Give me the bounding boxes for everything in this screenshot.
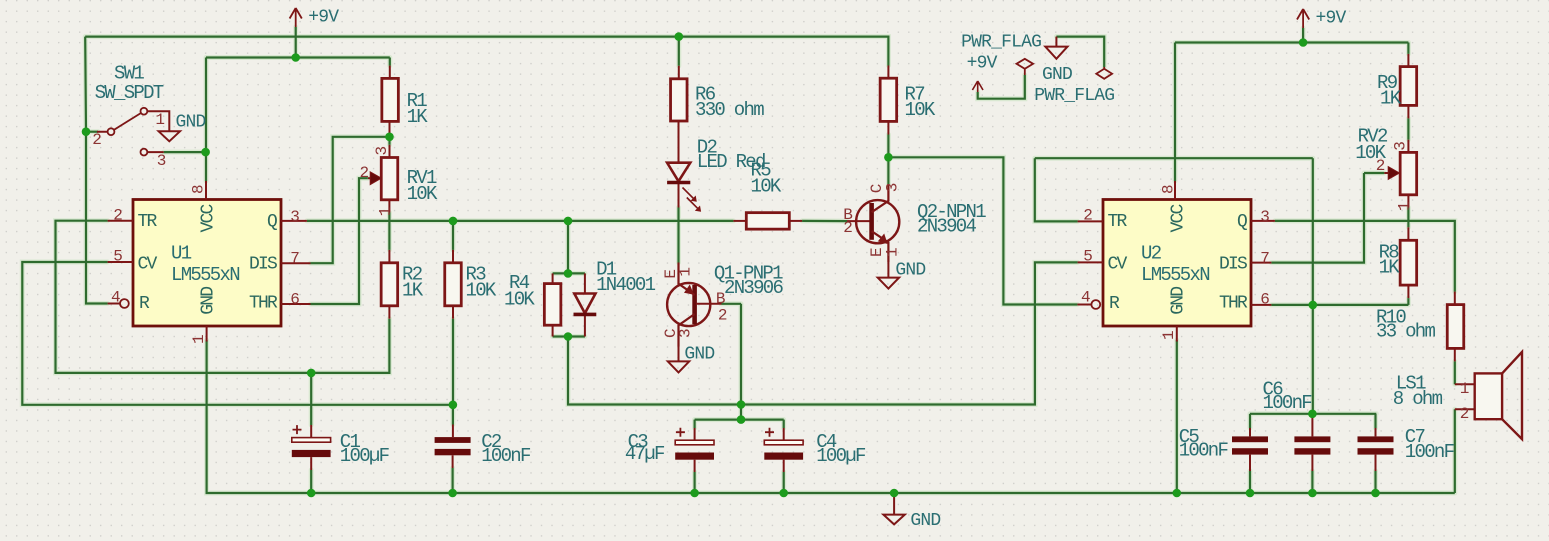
junction bus C5 — [1246, 489, 1255, 498]
power flag PWR_FLAG right (GND) — [1096, 67, 1112, 79]
wire C6 bottom — [1311, 471, 1313, 493]
svg-text:100µF: 100µF — [340, 445, 390, 467]
svg-text:6: 6 — [1260, 291, 1269, 309]
svg-text:Q: Q — [267, 212, 277, 232]
wire PWR_FLAG +9V — [978, 75, 1025, 99]
transistor Q1 PNP 2N3906 — [667, 263, 710, 347]
svg-text:CV: CV — [138, 255, 158, 275]
svg-text:LM555xN: LM555xN — [1141, 264, 1209, 286]
wire C5/C6/C7 top link — [1250, 413, 1376, 415]
svg-text:Q: Q — [1237, 212, 1247, 232]
wire C7 bottom — [1374, 471, 1376, 493]
wire R3 bottom — [452, 319, 454, 405]
svg-text:1K: 1K — [1379, 257, 1401, 279]
resistor R9 — [1400, 67, 1417, 106]
wire C3/C4 node link — [740, 405, 742, 420]
svg-text:GND: GND — [199, 287, 219, 315]
svg-text:3: 3 — [290, 208, 299, 226]
wire C3 top — [693, 420, 695, 428]
svg-text:GND: GND — [1042, 65, 1072, 85]
wire C5 top — [1249, 414, 1251, 428]
capacitor C1 (polarized) — [292, 425, 331, 457]
junction D1/R4 bottom — [564, 332, 573, 341]
wire R9 top — [1407, 43, 1409, 54]
svg-text:100nF: 100nF — [1405, 441, 1455, 463]
wire R1/RV1 node to U1 DIS — [311, 137, 390, 263]
wire RV2 to R8 — [1407, 208, 1409, 228]
wire R9 to RV2 — [1407, 118, 1409, 139]
wire C2 top — [452, 405, 454, 425]
junction +9V right — [1299, 38, 1308, 47]
wire down to U2 TR — [1035, 158, 1078, 221]
svg-text:THR: THR — [249, 293, 278, 313]
junction bus C2 — [448, 489, 457, 498]
junction Q/R3 — [449, 217, 458, 226]
wire RV1 pin1 to R2 — [388, 213, 390, 250]
svg-text:8: 8 — [1160, 185, 1178, 194]
svg-text:6: 6 — [290, 291, 299, 309]
switch SW1 SW_SPDT — [97, 108, 169, 156]
svg-text:2: 2 — [843, 219, 852, 237]
svg-text:1: 1 — [1460, 380, 1469, 398]
svg-text:2: 2 — [113, 206, 122, 224]
svg-text:DIS: DIS — [249, 255, 277, 275]
wire R1 top — [389, 58, 391, 66]
ground at switch pin 1 — [159, 131, 180, 141]
junction THR net — [1309, 301, 1318, 310]
wire U2 GND down — [1176, 340, 1178, 493]
LED D2 — [667, 121, 701, 212]
svg-text:1N4001: 1N4001 — [596, 274, 656, 296]
svg-text:THR: THR — [1219, 293, 1248, 313]
svg-text:CV: CV — [1108, 255, 1128, 275]
svg-text:2N3906: 2N3906 — [724, 277, 784, 299]
junction bus GND — [890, 489, 899, 498]
capacitor C4 (polarized) — [764, 428, 803, 460]
power flag PWR_FLAG left (+9V) — [1017, 59, 1034, 75]
ground at bottom bus — [883, 493, 904, 524]
svg-text:GND: GND — [684, 344, 714, 364]
svg-text:3: 3 — [1391, 142, 1409, 151]
wire +9V drop — [295, 27, 297, 58]
svg-text:GND: GND — [176, 112, 206, 132]
wire R8 bottom — [1407, 298, 1409, 305]
svg-text:3: 3 — [677, 329, 695, 338]
power +9V left — [290, 8, 302, 27]
wire U2 Q to R10 — [1275, 221, 1455, 292]
U2 pins — [1078, 220, 1103, 222]
wire Q2 collector node to U2 pin4 — [888, 157, 1077, 304]
svg-text:1: 1 — [677, 267, 695, 276]
ground at Q2 emitter — [878, 262, 899, 289]
svg-text:GND: GND — [910, 511, 940, 531]
wire PWR_FLAG GND — [1056, 37, 1104, 67]
junction bus U2 GND — [1173, 489, 1182, 498]
svg-text:2: 2 — [360, 164, 369, 182]
svg-text:100nF: 100nF — [481, 445, 531, 467]
junction C3/C4 — [737, 415, 746, 424]
svg-text:3: 3 — [884, 183, 902, 192]
svg-text:1K: 1K — [402, 280, 424, 302]
svg-text:2: 2 — [1460, 405, 1469, 423]
wire +9V drop right — [1302, 28, 1304, 43]
capacitor C2 — [435, 437, 471, 455]
junction bus C1 — [307, 489, 316, 498]
svg-text:33 ohm: 33 ohm — [1376, 321, 1436, 343]
resistor R10 — [1447, 305, 1464, 349]
svg-text:1: 1 — [190, 335, 208, 344]
svg-text:1: 1 — [1160, 331, 1178, 340]
svg-text:VCC: VCC — [199, 203, 219, 232]
junction R1/RV1/DIS — [385, 133, 394, 142]
svg-text:5: 5 — [1083, 248, 1092, 266]
resistor R4 — [544, 284, 561, 326]
U1 pins — [108, 220, 133, 222]
svg-text:LM555xN: LM555xN — [171, 264, 239, 286]
svg-text:B: B — [716, 290, 725, 308]
svg-text:2: 2 — [718, 306, 727, 324]
wire to RV2 wiper — [1364, 172, 1384, 174]
svg-text:100µF: 100µF — [816, 445, 866, 467]
power +9V right — [1297, 9, 1309, 28]
svg-text:TR: TR — [1108, 212, 1128, 232]
svg-text:VCC: VCC — [1169, 203, 1189, 232]
wire RV1 wiper to U1 THR — [311, 178, 368, 304]
wire D1/R4 top link — [553, 272, 585, 274]
svg-text:GND: GND — [1169, 287, 1189, 315]
junction Q/D1R4 — [564, 217, 573, 226]
junction top rail R6 — [675, 32, 684, 41]
wire R5 to Q2 base — [802, 220, 847, 222]
junction CV net / C2 — [449, 401, 458, 410]
capacitor C6 — [1294, 436, 1330, 454]
wire +9V rail right — [1175, 41, 1408, 43]
wire Q1 base stub — [722, 303, 742, 305]
wire C2 bottom — [452, 468, 454, 493]
svg-text:TR: TR — [138, 212, 158, 232]
wire D1/R4 bottom link — [553, 335, 585, 337]
wire node down to Q2 collector — [887, 157, 889, 184]
svg-text:7: 7 — [1260, 250, 1269, 268]
svg-text:PWR_FLAG: PWR_FLAG — [961, 33, 1041, 53]
wire top rail from switch common to R7 — [85, 37, 888, 66]
junction bus C3 — [690, 489, 699, 498]
junction bus C4 — [779, 489, 788, 498]
junction TR net / C1 — [307, 369, 316, 378]
resistor R7 — [880, 78, 897, 121]
svg-text:330 ohm: 330 ohm — [695, 99, 764, 121]
junction VCC/switch — [201, 148, 210, 157]
wire U2 DIS up — [1271, 173, 1364, 263]
wire RV2/THR column — [1312, 158, 1314, 414]
wire switch pin3 to VCC — [164, 151, 206, 153]
wire switch pin2 stub — [86, 131, 98, 133]
svg-text:100nF: 100nF — [1263, 392, 1313, 414]
svg-text:+9V: +9V — [308, 8, 339, 28]
svg-text:4: 4 — [1081, 289, 1090, 307]
svg-text:2N3904: 2N3904 — [917, 216, 977, 238]
svg-text:4: 4 — [111, 289, 120, 307]
svg-text:10K: 10K — [504, 289, 535, 311]
wire R3 top drop — [452, 221, 454, 250]
svg-text:SW_SPDT: SW_SPDT — [95, 82, 164, 104]
IC U1 LM555xN — [133, 200, 281, 327]
junction D1/R4 top — [564, 269, 573, 278]
resistor R1 — [382, 78, 399, 121]
svg-text:100nF: 100nF — [1179, 440, 1229, 462]
wire U1 CV to R3/C2 node — [22, 262, 453, 405]
svg-text:8 ohm: 8 ohm — [1393, 388, 1443, 410]
wire C4 top — [783, 420, 785, 428]
svg-text:3: 3 — [1260, 208, 1269, 226]
svg-text:10K: 10K — [751, 176, 782, 198]
wire U2 THR row — [1271, 304, 1408, 306]
svg-text:1: 1 — [884, 248, 902, 257]
wire D2 cathode to Q1 emitter — [677, 208, 679, 263]
wire C4 bottom — [783, 472, 785, 493]
wire C7 top — [1374, 414, 1376, 428]
junction bus C6 — [1308, 489, 1317, 498]
power +9V small at PWR_FLAG — [972, 81, 983, 92]
junction +9V rail — [291, 53, 300, 62]
svg-text:GND: GND — [895, 260, 925, 280]
wire R6 top drop — [678, 37, 680, 66]
svg-text:1K: 1K — [407, 106, 429, 128]
svg-text:1: 1 — [377, 207, 395, 216]
wire VCC drop U2 — [1174, 43, 1176, 182]
svg-text:10K: 10K — [905, 99, 936, 121]
wire C1 bottom — [310, 470, 312, 493]
junction bus C7 — [1371, 489, 1380, 498]
wire C5 bottom — [1249, 471, 1251, 493]
wire LS1 pin2 down — [1454, 409, 1456, 493]
resistor R5 — [746, 213, 789, 230]
svg-text:+9V: +9V — [1316, 9, 1347, 29]
svg-text:2: 2 — [1376, 157, 1385, 175]
wire R10 to LS1 — [1454, 361, 1456, 384]
svg-text:1: 1 — [1396, 202, 1414, 211]
resistor R8 — [1400, 240, 1417, 285]
svg-text:U2: U2 — [1141, 243, 1162, 265]
svg-text:5: 5 — [113, 248, 122, 266]
junction C6 top — [1308, 410, 1317, 419]
wire +9V rail U1 — [206, 56, 390, 58]
resistor R2 — [381, 263, 398, 306]
svg-text:8: 8 — [190, 185, 208, 194]
junction Q2 collector — [884, 153, 893, 162]
svg-text:47µF: 47µF — [625, 443, 665, 465]
junction switch pin 2 — [82, 127, 91, 136]
resistor R6 — [671, 79, 688, 121]
svg-text:3: 3 — [373, 146, 391, 155]
wire R2 bottom to U1 TR — [56, 221, 390, 373]
IC U2 LM555xN — [1103, 200, 1251, 327]
wire R1 bottom to RV1 — [388, 134, 390, 144]
svg-text:10K: 10K — [466, 280, 497, 302]
potentiometer RV2 — [1400, 152, 1417, 194]
svg-text:2: 2 — [92, 131, 101, 149]
svg-text:2: 2 — [1083, 206, 1092, 224]
transistor Q2 NPN 2N3904 — [856, 184, 899, 262]
junction Q1 base net — [737, 400, 746, 409]
wire D1/R4 bottom to U2 CV — [568, 262, 1078, 404]
svg-text:7: 7 — [290, 250, 299, 268]
wire VCC drop U1 — [205, 58, 207, 182]
wire Q net down to D1/R4 — [567, 221, 569, 274]
speaker LS1 — [1475, 352, 1522, 439]
ground at PWR_FLAG — [1045, 37, 1067, 59]
capacitor C5 — [1232, 436, 1268, 454]
capacitor C7 — [1358, 436, 1394, 454]
ground at Q1 collector — [668, 347, 689, 373]
potentiometer RV1 — [381, 158, 398, 200]
wire C3/C4 top link — [695, 419, 784, 421]
svg-text:10K: 10K — [407, 183, 438, 205]
svg-text:PWR_FLAG: PWR_FLAG — [1034, 86, 1114, 106]
wire U2 TR net top — [1035, 157, 1313, 159]
wire C3 bottom — [693, 472, 695, 493]
wire Q1 base down — [740, 304, 742, 405]
svg-text:3: 3 — [157, 152, 166, 170]
wire U1 Q output — [307, 220, 734, 222]
resistor R3 — [445, 263, 462, 306]
svg-text:DIS: DIS — [1219, 255, 1247, 275]
svg-text:1: 1 — [155, 111, 164, 129]
wire ground bus — [207, 340, 1455, 493]
wire R7 bottom to node — [887, 135, 889, 158]
capacitor C3 (polarized) — [675, 428, 714, 460]
svg-text:U1: U1 — [171, 243, 192, 265]
diode D1 1N4001 — [574, 273, 597, 336]
svg-text:1K: 1K — [1380, 88, 1402, 110]
svg-text:+9V: +9V — [967, 54, 998, 74]
wire C1 top — [310, 373, 312, 425]
wire left rail to U1 pin 4 — [85, 37, 107, 304]
